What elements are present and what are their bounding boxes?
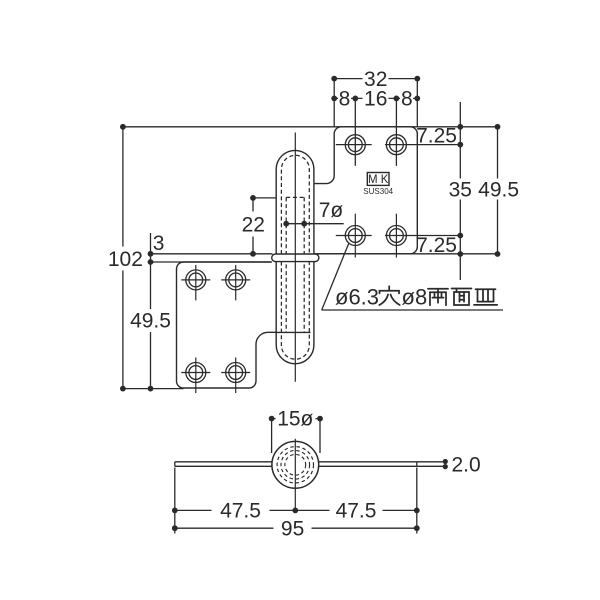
hole LL top-right (226, 270, 246, 290)
svg-text:3: 3 (153, 232, 165, 255)
wire extension y=235.5 right (385, 235, 460, 237)
wire dim line 3/49.5 x=150.5 (150, 233, 152, 389)
wire dim line 32 (334, 78, 417, 80)
wire extension y=144.6 right (385, 144, 460, 146)
kanji men (face) (452, 289, 472, 306)
leader line to countersunk hole (322, 243, 349, 310)
kanji sara (dish) (474, 289, 497, 305)
plate left cap (174, 462, 176, 467)
barrel upper inner tube hidden (281, 155, 309, 254)
barrel center line (294, 133, 296, 382)
wire extension x=396.4 hole (395, 98, 397, 165)
crosshair LL horizontals top (181, 279, 210, 281)
crosshair RL bottom verticals (354, 214, 356, 258)
wire extension y=262 left leaf top (151, 261, 272, 263)
svg-text:2.0: 2.0 (452, 453, 481, 476)
wire dim line 35/7.25 x=460.3 (459, 102, 461, 280)
svg-text:8: 8 (339, 88, 351, 111)
pin hidden top (286, 196, 304, 198)
dimension texts (108, 68, 519, 541)
crosshair LL verticals bottom (195, 358, 197, 394)
wire dim 22 vertical (252, 198, 254, 254)
svg-text:95: 95 (281, 517, 304, 540)
svg-text:M K: M K (368, 174, 389, 186)
wire extension y=144.6 left (336, 144, 372, 146)
dimension dots (120, 76, 500, 531)
wire dim 95 line (175, 527, 417, 529)
MK box (367, 173, 389, 186)
crosshair LL verticals top (195, 265, 197, 301)
wire dim line 49.5 right x=497.5 (497, 127, 499, 254)
barrel lower inner tube hidden (281, 262, 309, 360)
svg-text:ø8: ø8 (402, 285, 428, 310)
wire 2.0 ext top (417, 461, 448, 463)
svg-text:ø6.3: ø6.3 (335, 285, 379, 310)
right leaf plate (314, 127, 417, 254)
hole RL bottom-left (345, 226, 365, 246)
wire extension x=417.3 (416, 79, 418, 127)
barrel lower outer tube (276, 262, 314, 364)
wire extension y=253.8 right (317, 253, 500, 255)
plate side view top line (175, 461, 417, 463)
svg-text:7.25: 7.25 (416, 234, 457, 257)
svg-text:102: 102 (108, 248, 143, 271)
knuckle circle (272, 441, 319, 488)
svg-text:47.5: 47.5 (220, 500, 261, 523)
hole LL bottom-left (186, 363, 206, 383)
svg-text:47.5: 47.5 (336, 500, 377, 523)
hidden circle r10 (285, 454, 306, 475)
wire dim 15o line (272, 418, 320, 420)
wire left drop x=174.8 (174, 468, 176, 534)
svg-text:8: 8 (401, 88, 413, 111)
wire extension x=355.3 hole (354, 98, 356, 165)
wire dim 47.5 line (175, 509, 417, 511)
hole RL top-left (345, 135, 365, 155)
bottom view center line (294, 439, 296, 511)
svg-text:49.5: 49.5 (130, 310, 171, 333)
leader underline (322, 309, 503, 311)
pin hidden left (285, 197, 287, 332)
svg-text:7.25: 7.25 (416, 125, 457, 148)
kanji ryou (both) (428, 289, 448, 306)
wire extension y=388.6 bottom (123, 388, 184, 390)
hole RL top-right (386, 135, 406, 155)
wire extension y=235.5 left (336, 235, 372, 237)
collar ring (272, 254, 319, 262)
wire extension x=334.2 (333, 79, 335, 127)
wire 15o left drop (271, 419, 273, 453)
svg-text:7ø: 7ø (319, 199, 344, 222)
pin hidden right (303, 197, 305, 332)
svg-text:15ø: 15ø (277, 407, 313, 430)
barrel upper outer tube (276, 150, 314, 254)
plate right cap (416, 462, 418, 467)
wire dim line 102 x=122.9 (122, 127, 124, 389)
left leaf plate (177, 262, 277, 388)
hole LL top-left (186, 270, 206, 290)
wire extension y=253.8 left (151, 253, 273, 255)
svg-text:16: 16 (364, 88, 387, 111)
hidden circle r18 (277, 447, 313, 483)
kanji ana (hole) (379, 286, 399, 305)
wire 15o right drop (319, 419, 321, 453)
wire long top extension y=126.8 (123, 126, 498, 128)
white gaps under dimension texts (108, 68, 522, 539)
left leaf edge behind barrel (276, 331, 310, 333)
svg-text:35: 35 (449, 178, 472, 201)
hidden circle r14 (281, 451, 310, 480)
wire right drop x=416.8 (416, 468, 418, 534)
svg-text:SUS304: SUS304 (363, 187, 393, 196)
wire 2.0 ext bottom (417, 465, 448, 467)
wire dim 7o line (286, 223, 344, 225)
plate side view bottom line (175, 465, 417, 467)
svg-text:49.5: 49.5 (478, 178, 519, 201)
wire dim line 8-16-8 (334, 97, 417, 99)
svg-text:22: 22 (242, 214, 265, 237)
hole RL bottom-right (386, 226, 406, 246)
wire dim 22 top tick (253, 197, 276, 199)
crosshair LL horizontals bottom (181, 372, 210, 374)
hole LL bottom-right (226, 363, 246, 383)
